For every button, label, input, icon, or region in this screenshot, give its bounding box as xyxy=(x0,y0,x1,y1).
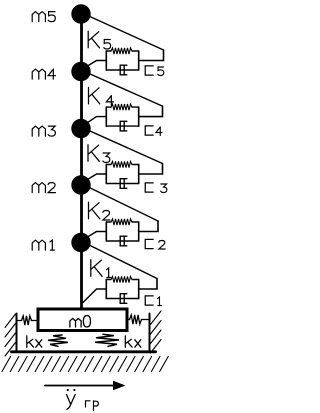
label m4 xyxy=(32,69,55,79)
damper C2 xyxy=(106,236,138,246)
label y_gr ground acceleration xyxy=(67,389,99,411)
right wall hatch xyxy=(151,311,162,353)
mass m1 xyxy=(71,233,90,252)
mass m4 xyxy=(71,62,90,81)
label kx right xyxy=(125,336,141,347)
wire main vertical column xyxy=(80,14,83,308)
label m3 xyxy=(32,126,55,136)
label K2 xyxy=(89,202,110,220)
mass m2 xyxy=(71,175,90,194)
label C1 xyxy=(145,296,161,306)
damper C5 xyxy=(106,65,138,75)
wire diagonal m5 to K5 right corner xyxy=(81,13,164,51)
spring K2 xyxy=(106,219,138,225)
label m1 xyxy=(32,240,54,250)
wire diagonal m1 to K1 right corner xyxy=(81,241,157,279)
spring kx m0 to right wall xyxy=(127,315,149,324)
wire m0 column to K1 left lead xyxy=(83,289,106,303)
spring kx bottom-left under m0 xyxy=(48,335,68,346)
damper C1 xyxy=(106,294,138,304)
ground hatch xyxy=(2,357,168,372)
label K1 xyxy=(91,260,111,278)
spring K1 xyxy=(106,276,138,282)
ground line xyxy=(11,350,155,353)
element K2/C2 frame (bars and leads) xyxy=(106,221,158,241)
element K4/C4 frame (bars and leads) xyxy=(106,106,162,126)
element K1/C1 frame (bars and leads) xyxy=(106,279,157,299)
base mass m0 box xyxy=(38,309,127,331)
spring K3 xyxy=(106,161,138,167)
element K5/C5 frame (bars and leads) xyxy=(106,50,163,70)
damper C3 xyxy=(106,179,138,189)
right wall xyxy=(149,314,151,352)
label K3 xyxy=(88,145,110,163)
damper C4 xyxy=(106,121,138,131)
arrow ground acceleration xyxy=(45,381,126,391)
wire diagonal m4 to K4 right corner xyxy=(81,70,163,106)
wire m3 node to K4 left lead xyxy=(81,117,106,127)
label kx left xyxy=(27,336,42,347)
wire m1 node to K2 left lead xyxy=(81,232,106,242)
wire m4 node to K5 left lead xyxy=(81,61,106,71)
wire m2 node to K3 left lead xyxy=(81,174,106,184)
label C2 xyxy=(145,239,165,249)
mass m5 xyxy=(71,4,90,23)
wire diagonal m2 to K2 right corner xyxy=(81,184,158,222)
label C5 xyxy=(145,66,164,76)
label K4 xyxy=(89,87,114,105)
element K3/C3 frame (bars and leads) xyxy=(106,164,162,184)
label m5 xyxy=(32,12,55,22)
label C4 xyxy=(145,126,162,136)
spring K4 xyxy=(106,104,138,110)
wire diagonal m3 to K3 right corner xyxy=(81,127,163,164)
label m0 xyxy=(70,316,91,328)
spring kx bottom-right under m0 xyxy=(95,334,119,346)
spring kx left wall to m0 xyxy=(18,316,39,325)
left wall xyxy=(16,314,18,352)
label C3 xyxy=(145,183,167,193)
label K5 xyxy=(88,31,110,49)
left wall hatch xyxy=(5,314,16,356)
mass m3 xyxy=(71,119,90,138)
label m2 xyxy=(32,183,55,193)
spring K5 xyxy=(106,48,138,54)
